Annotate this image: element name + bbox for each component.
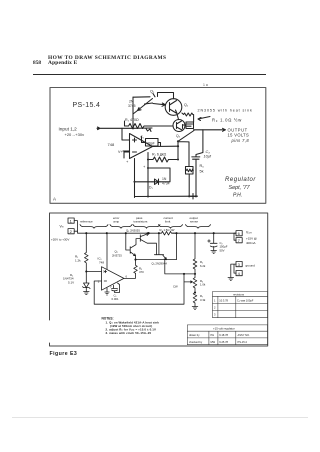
D1 junction dots [133, 181, 135, 183]
svg-text:400mA: 400mA [246, 241, 256, 245]
svg-text:9.25.78: 9.25.78 [219, 340, 228, 344]
Q1 base slash [138, 99, 153, 111]
zener D1 [83, 272, 91, 292]
brace error amp [110, 225, 132, 229]
svg-text:5.1V: 5.1V [68, 280, 74, 284]
svg-text:R₂ 470Ω: R₂ 470Ω [125, 118, 139, 122]
input wire [97, 127, 152, 130]
R2 right wire to Q3 [147, 125, 174, 127]
svg-text:checked by: checked by [189, 340, 203, 344]
figure caption [50, 351, 78, 357]
brace current limit [159, 225, 183, 229]
top rail [133, 96, 150, 98]
svg-text:1.0k: 1.0k [200, 283, 206, 287]
title block [187, 325, 267, 345]
svg-text:2N3725: 2N3725 [112, 253, 122, 257]
brace reference [80, 225, 108, 229]
svg-text:C₂: C₂ [141, 135, 145, 139]
resistor R4 inline [159, 231, 177, 235]
top rail [78, 231, 237, 233]
svg-text:6.2k: 6.2k [200, 264, 206, 268]
sense divider wire [147, 160, 149, 179]
Q3 collector rail dot [148, 232, 150, 234]
ground under C2 [211, 251, 217, 254]
svg-text:Q₁: Q₁ [150, 90, 155, 94]
svg-text:2: 2 [70, 229, 73, 234]
svg-text:pins 7,8: pins 7,8 [231, 138, 250, 143]
terminal 7 [236, 238, 242, 243]
brace output sense [186, 225, 211, 229]
svg-text:ASSY NO.: ASSY NO. [238, 333, 250, 337]
svg-text:+: + [126, 159, 129, 164]
resistor R7 [193, 293, 197, 307]
faint page bottom line [12, 417, 308, 418]
brace pass transistors [133, 225, 160, 229]
output arrow [194, 128, 226, 131]
box frame figure E3 [50, 213, 268, 346]
svg-text:50V: 50V [220, 248, 225, 252]
svg-text:2: 2 [214, 306, 216, 310]
R6 trimmer box [186, 167, 194, 175]
left feedback wire [132, 97, 134, 128]
svg-text:2N3055 with heat sink: 2N3055 with heat sink [198, 109, 253, 113]
wire to pin 3 [86, 271, 101, 273]
svg-text:P.H.: P.H. [233, 193, 242, 199]
svg-text:D₁: D₁ [149, 186, 153, 190]
transistor Q1 current limit [154, 233, 176, 260]
svg-text:limit: limit [165, 219, 170, 223]
svg-text:PH: PH [211, 333, 215, 337]
bottom rail [135, 179, 198, 197]
Q1 to Q2 base wire [153, 103, 165, 106]
svg-text:+20V to +30V: +20V to +30V [51, 237, 69, 241]
Q2 internals [170, 101, 178, 114]
terminal 2 [68, 229, 74, 234]
svg-text:7: 7 [238, 238, 241, 243]
op-amp plus minus [133, 138, 137, 152]
svg-text:reference: reference [80, 219, 93, 223]
Q3 internals [177, 121, 183, 130]
svg-text:revisions: revisions [233, 293, 245, 297]
terminal 6 [236, 231, 242, 236]
svg-text:Input 1,2: Input 1,2 [59, 127, 78, 132]
C2 plus [208, 240, 211, 243]
R6 zigzag inside [186, 169, 193, 172]
terminal tie wire [74, 221, 77, 232]
svg-text:MW: MW [211, 340, 216, 344]
mid junction dots [147, 158, 149, 160]
Q1 emitter bus [136, 259, 177, 261]
svg-text:R₆: R₆ [200, 164, 205, 168]
svg-text:748: 748 [99, 260, 104, 264]
svg-text:Q₃ 2N3055: Q₃ 2N3055 [126, 228, 140, 232]
svg-text:R₃ 1.0Ω ½w: R₃ 1.0Ω ½w [212, 118, 242, 123]
ground mark [191, 194, 196, 200]
ground under R7 [192, 307, 198, 310]
svg-text:ground: ground [246, 263, 256, 267]
comp cap C2 loop [142, 137, 146, 143]
svg-text:4: 4 [238, 271, 241, 276]
svg-text:A: A [53, 197, 56, 202]
svg-text:1 a: 1 a [203, 83, 208, 87]
svg-text:748: 748 [108, 142, 115, 147]
Q2 collector entry [158, 93, 174, 99]
svg-text:transistors: transistors [134, 219, 148, 223]
R7 zigzag [153, 157, 169, 162]
wire Q3 to adj box [183, 124, 187, 126]
svg-text:1: 1 [214, 299, 216, 303]
svg-text:10μf: 10μf [204, 155, 212, 159]
Q1 base wire [145, 103, 153, 104]
op-amp U1 triangle [130, 134, 153, 159]
svg-text:30pF: 30pF [147, 141, 155, 145]
Q1 base drop wire [165, 260, 195, 274]
resistor R1 [85, 233, 89, 271]
svg-text:10.3.78: 10.3.78 [219, 299, 228, 303]
svg-text:R₄ 1.5Ω 1W: R₄ 1.5Ω 1W [160, 228, 175, 232]
node junction R1 zener [85, 270, 87, 272]
svg-text:Vᵢₙ: Vᵢₙ [60, 225, 65, 229]
svg-text:amp: amp [113, 219, 119, 223]
R2 left wire [125, 111, 138, 127]
svg-text:+15 volt regulator: +15 volt regulator [213, 327, 235, 331]
svg-text:Sept, '77: Sept, '77 [229, 185, 251, 191]
transistor Q3 pass [140, 233, 156, 255]
slant junction dot [177, 140, 179, 142]
bottom junction dots [147, 195, 149, 197]
svg-text:0.001: 0.001 [112, 297, 119, 301]
resistor R2 zigzag [127, 124, 147, 129]
transistor Q2 driver [126, 233, 141, 259]
svg-text:CW: CW [173, 285, 178, 289]
diode D1 [152, 179, 160, 185]
note arrow [198, 117, 210, 121]
emitter sense zigzag [182, 113, 194, 122]
terminal 1 [68, 218, 74, 223]
svg-text:Regulator: Regulator [225, 177, 256, 183]
rail dots [85, 232, 87, 234]
revisions table [213, 292, 268, 318]
pin2 wire [94, 274, 192, 304]
output junction dot [177, 145, 179, 147]
svg-text:C₃: C₃ [206, 150, 211, 154]
svg-text:sense: sense [190, 219, 198, 223]
svg-text:470: 470 [139, 270, 144, 274]
svg-text:6: 6 [238, 231, 241, 236]
appendix label [48, 60, 77, 66]
capacitor C3 [192, 130, 203, 196]
resistor R3 [134, 260, 138, 274]
input junction dot [132, 127, 134, 129]
node R3 top [134, 259, 136, 261]
op-amp V+ lead [123, 150, 130, 152]
svg-text:9.18.78: 9.18.78 [219, 333, 228, 337]
header rule [33, 74, 266, 75]
adj box ticks [187, 124, 193, 126]
output slant wire [178, 131, 194, 167]
base junction dot [194, 273, 196, 275]
op-amp output wire [124, 273, 136, 278]
svg-text:3. mates with cinch 50–15A–20: 3. mates with cinch 50–15A–20 [106, 331, 152, 335]
svg-text:3: 3 [214, 313, 216, 317]
V+ supply wire [106, 233, 108, 269]
svg-text:1N: 1N [162, 177, 167, 181]
svg-text:V+: V+ [118, 150, 123, 154]
op-amp IC1 [102, 267, 124, 291]
comp cap C1 [112, 283, 120, 293]
rail dots at R4 [158, 232, 160, 234]
R7 wires [148, 146, 178, 159]
Q2 emitter drop [177, 115, 178, 120]
page header title [48, 55, 166, 61]
svg-text:5k: 5k [200, 170, 204, 174]
transistor Q2 circle [165, 99, 182, 116]
node R6 R7 [194, 292, 196, 294]
svg-text:1.2k: 1.2k [75, 258, 81, 262]
svg-text:3745: 3745 [128, 104, 136, 108]
svg-text:3.3k: 3.3k [200, 298, 206, 302]
Q1 lead tick [153, 94, 155, 97]
small resistor under Q1 [146, 129, 151, 132]
terminal 3 [236, 262, 242, 267]
D1 wires [135, 168, 171, 182]
op-amp input wires [122, 128, 130, 158]
svg-text:Q₃: Q₃ [176, 134, 181, 138]
svg-text:1: 1 [70, 218, 73, 223]
comp cap C2 box [146, 139, 159, 147]
svg-text:Q₂: Q₂ [184, 103, 189, 107]
page number [33, 60, 41, 66]
svg-text:Vₒₙₜ: Vₒₙₜ [246, 230, 252, 234]
svg-text:+20→+30v: +20→+30v [65, 132, 85, 137]
op-amp output wire [153, 143, 179, 147]
svg-text:+: + [143, 164, 146, 169]
hand drawn schematic content [59, 90, 257, 200]
R6 bottom wire [188, 174, 190, 196]
capacitor C2 [210, 233, 217, 250]
op-amp plus minus [104, 270, 106, 281]
terminal 6-7 tie [234, 233, 236, 240]
pot R6 [193, 274, 197, 292]
pin4 ground stub [105, 288, 109, 295]
svg-text:2N: 2N [129, 100, 134, 104]
svg-text:15 VOLTS: 15 VOLTS [228, 133, 250, 138]
svg-text:PS-15.4: PS-15.4 [238, 340, 248, 344]
svg-text:drawn by: drawn by [189, 333, 200, 337]
ground under D1 [84, 292, 90, 295]
box A frame (hand-drawn schematic panel) [50, 88, 266, 204]
svg-text:3: 3 [238, 262, 241, 267]
transistor Q3 circle [173, 120, 185, 132]
terminal 3-4 tie and ground [228, 264, 236, 280]
resistor R5 [193, 233, 197, 274]
feedback left drop [134, 159, 136, 198]
adj box component [186, 122, 194, 129]
svg-text:PS-15.4: PS-15.4 [73, 102, 101, 109]
svg-text:C₂ was 100μF: C₂ was 100μF [237, 299, 254, 303]
terminal 4 [236, 271, 242, 276]
